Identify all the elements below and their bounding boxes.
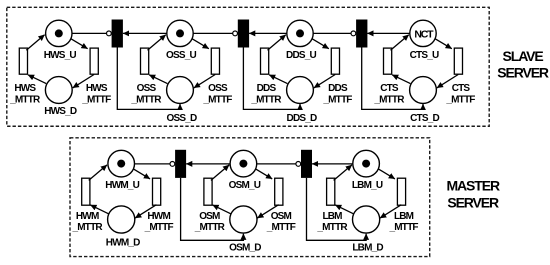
arc DDS_U to T2 <box>249 32 287 34</box>
inhibitor circle at T4 <box>170 162 175 167</box>
inhibitor circle at T1 <box>107 31 112 36</box>
svg-text:SLAVESERVER: SLAVESERVER <box>497 48 549 81</box>
wire inhibitor arc HWS_U to T1 <box>72 32 106 34</box>
transition CTS_MTTR <box>384 48 392 74</box>
svg-text:OSS_U: OSS_U <box>166 50 196 61</box>
svg-text:LBM_D: LBM_D <box>352 243 383 254</box>
place OSM_D <box>230 206 257 233</box>
token in DDS_U <box>296 29 304 37</box>
transition CTS_MTTF <box>454 48 462 74</box>
arc T5 to LBM_D (wire down, across, up) <box>307 178 367 240</box>
svg-text:OSS_D: OSS_D <box>167 113 197 124</box>
transition HWS_MTTR <box>19 48 27 74</box>
wire inhibitor arc OSM_U to T5 <box>257 163 296 165</box>
immediate transition T5 <box>301 150 312 178</box>
arc CTS_MTTR to CTS_U <box>391 35 409 51</box>
svg-text:HWS_U: HWS_U <box>44 50 77 61</box>
token in OSS_U <box>176 29 184 37</box>
transition OSS_MTTR <box>141 48 149 74</box>
immediate transition T4 <box>175 150 186 178</box>
svg-text:HWM_D: HWM_D <box>106 238 140 249</box>
immediate transition T1 <box>112 20 123 48</box>
svg-text:HWM_U: HWM_U <box>105 180 139 191</box>
arc HWS_MTTR to HWS_U <box>26 35 44 51</box>
token in LBM_U <box>362 160 370 168</box>
immediate transition T3 <box>356 20 367 48</box>
arc OSS_MTTF to OSS_D <box>194 75 215 88</box>
arc DDS_U to DDS_MTTF <box>312 39 329 49</box>
place DDS_D <box>287 77 314 104</box>
inhibitor circle at T3 <box>351 31 356 36</box>
dashed box MASTER SERVER group <box>70 138 430 257</box>
arc T3 to CTS_D (wire down, across, up) <box>362 48 423 110</box>
arc OSS_D to OSS_MTTR <box>149 75 167 84</box>
svg-text:OSM_D: OSM_D <box>229 243 261 254</box>
arc DDS_MTTF to DDS_D <box>314 75 335 88</box>
transition OSM_MTTR <box>204 178 212 205</box>
svg-text:NCT: NCT <box>414 28 434 40</box>
arc HWS_D to HWS_MTTR <box>28 75 46 84</box>
arc OSS_MTTR to OSS_U <box>148 35 166 51</box>
place LBM_D <box>353 206 380 233</box>
dashed box SLAVE SERVER group <box>7 7 489 126</box>
transition DDS_MTTF <box>331 48 339 74</box>
transition OSS_MTTF <box>211 48 219 74</box>
svg-text:DDS_U: DDS_U <box>286 50 316 61</box>
place HWM_D <box>108 206 135 233</box>
place CTS_U <box>410 20 436 46</box>
arc CTS_MTTF to CTS_D <box>437 75 458 88</box>
arc HWM_MTTF to HWM_D <box>135 205 156 218</box>
svg-text:OSM_U: OSM_U <box>229 180 261 191</box>
place CTS_D <box>410 77 437 104</box>
arc OSM_MTTR to OSM_U <box>211 165 229 181</box>
arc DDS_MTTR to DDS_U <box>268 35 286 51</box>
arc OSM_D to OSM_MTTR <box>213 205 231 214</box>
arc OSM_U to T4 <box>186 163 230 165</box>
arc OSS_U to OSS_MTTF <box>192 39 209 49</box>
transition LBM_MTTR <box>327 178 335 205</box>
arc DDS_D to DDS_MTTR <box>269 75 287 84</box>
svg-text:MASTERSERVER: MASTERSERVER <box>446 177 500 210</box>
place HWS_D <box>45 77 72 104</box>
arc CTS_U to CTS_MTTF <box>435 39 452 49</box>
token in HWM_U <box>117 160 125 168</box>
immediate transition T2 <box>238 20 249 48</box>
wire inhibitor arc HWM_U to T4 <box>135 163 170 165</box>
svg-text:CTS_U: CTS_U <box>410 50 439 61</box>
arc CTS_D to CTS_MTTR <box>392 75 410 84</box>
arc HWM_MTTR to HWM_U <box>89 165 107 181</box>
token in HWS_U <box>55 29 63 37</box>
place DDS_U <box>287 20 313 46</box>
transition DDS_MTTR <box>261 48 269 74</box>
place OSS_U <box>167 20 193 46</box>
arc OSS_U to T1 <box>123 32 167 34</box>
inhibitor circle at T2 <box>233 31 238 36</box>
place HWM_U <box>108 150 135 177</box>
arc T4 to OSM_D (wire down, across, up) <box>181 178 244 240</box>
arc CTS_U to T3 <box>367 32 410 34</box>
arc HWS_U to HWS_MTTF <box>71 39 88 49</box>
svg-text:DDS_D: DDS_D <box>287 113 317 124</box>
inhibitor circle at T5 <box>296 162 301 167</box>
svg-text:LBM_U: LBM_U <box>352 180 383 191</box>
transition HWM_MTTR <box>82 178 90 205</box>
transition HWM_MTTF <box>153 178 161 205</box>
wire inhibitor arc DDS_U to T3 <box>313 32 351 34</box>
place OSM_U <box>230 150 257 177</box>
arc T1 to OSS_D (wire down, across, up) <box>117 48 180 110</box>
arc HWM_U to HWM_MTTF <box>133 169 150 179</box>
place LBM_U <box>353 150 380 177</box>
arc LBM_U to T5 <box>312 163 353 165</box>
arc LBM_MTTR to LBM_U <box>334 165 352 181</box>
arc HWS_MTTF to HWS_D <box>73 75 94 88</box>
svg-text:HWM_MTTF: HWM_MTTF <box>144 211 174 233</box>
transition OSM_MTTF <box>275 178 283 205</box>
svg-text:CTS_D: CTS_D <box>410 113 439 124</box>
arc LBM_U to LBM_MTTF <box>378 169 395 179</box>
transition HWS_MTTF <box>90 48 98 74</box>
arc HWM_D to HWM_MTTR <box>90 205 108 214</box>
wire inhibitor arc OSS_U to T2 <box>193 32 232 34</box>
transition LBM_MTTF <box>397 178 405 205</box>
arc LBM_D to LBM_MTTR <box>335 205 353 214</box>
token in OSM_U <box>239 160 247 168</box>
arc T2 to DDS_D (wire down, across, up) <box>243 48 300 110</box>
place OSS_D <box>167 77 194 104</box>
place HWS_U <box>46 20 72 46</box>
svg-text:HWS_D: HWS_D <box>44 106 77 117</box>
arc OSM_U to OSM_MTTF <box>256 169 273 179</box>
arc LBM_MTTF to LBM_D <box>380 205 401 218</box>
svg-text:HWS_MTTF: HWS_MTTF <box>81 83 111 105</box>
arc OSM_MTTF to OSM_D <box>257 205 278 218</box>
